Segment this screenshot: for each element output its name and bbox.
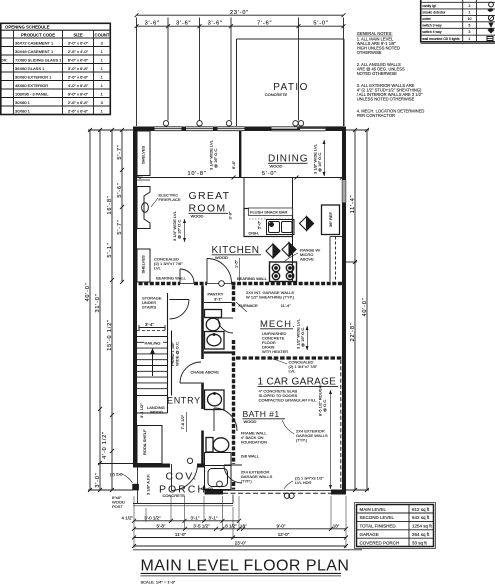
bottom dim row1 [132, 519, 241, 523]
2x4 exterior garage walls note lower [241, 470, 273, 484]
svg-text:4 1/2": 4 1/2" [122, 515, 134, 520]
svg-text:3'-1": 3'-1" [209, 515, 218, 520]
svg-text:2: 2 [469, 4, 471, 8]
svg-text:(TYP.): (TYP.) [296, 438, 308, 443]
svg-text:3'-0" x 6'-0": 3'-0" x 6'-0" [68, 41, 89, 46]
svg-text:1 CAR GARAGE: 1 CAR GARAGE [258, 377, 337, 388]
svg-text:COVERED PORCH: COVERED PORCH [360, 540, 400, 545]
svg-text:5'-0": 5'-0" [262, 171, 277, 177]
svg-text:3'-1 1/2": 3'-1 1/2" [139, 403, 144, 418]
svg-text:switch 3 way: switch 3 way [422, 24, 442, 28]
opening schedule text [1, 25, 110, 114]
svg-text:GARAGE: GARAGE [360, 532, 379, 537]
svg-text:GENERAL NOTES:: GENERAL NOTES: [357, 31, 393, 36]
svg-text:2'-6" x 6'-8": 2'-6" x 6'-8" [68, 75, 89, 80]
ceiling light diamond 1 [300, 217, 314, 231]
svg-text:5'-0": 5'-0" [313, 21, 328, 27]
svg-text:48X80 EXTERIOR: 48X80 EXTERIOR [15, 83, 48, 88]
svg-text:TOTAL FINISHED: TOTAL FINISHED [360, 524, 397, 529]
garage door opening dashed [223, 491, 331, 494]
left dim line 16'-8"/5'-1"/15'-0.5"/4'-0.5" [110, 128, 114, 492]
svg-text:LVL HDR: LVL HDR [295, 480, 312, 485]
svg-text:W 1/2" SHEATHING (TYP.): W 1/2" SHEATHING (TYP.) [246, 294, 295, 299]
svg-text:5: 5 [469, 24, 471, 28]
svg-text:wall mounted CB 5 lights: wall mounted CB 5 lights [422, 37, 460, 41]
svg-text:3'-4": 3'-4" [145, 322, 154, 327]
svg-text:3'-0": 3'-0" [95, 472, 101, 487]
bath1 tub [205, 453, 232, 490]
svg-text:COV.: COV. [166, 471, 199, 483]
svg-text:2'-6" x 6'-8": 2'-6" x 6'-8" [68, 100, 89, 105]
svg-text:CONCRETE: CONCRETE [163, 493, 186, 498]
svg-text:3'-6": 3'-6" [208, 21, 223, 27]
svg-text:3'-0" x 6'-8": 3'-0" x 6'-8" [68, 66, 89, 71]
svg-text:1254 sq ft: 1254 sq ft [412, 524, 433, 529]
svg-text:30X80 1: 30X80 1 [15, 100, 31, 105]
bath1 vanity sink [205, 390, 225, 410]
svg-text:3'-1": 3'-1" [214, 297, 223, 302]
landing [137, 396, 168, 414]
svg-text:WOOD: WOOD [150, 410, 163, 415]
svg-text:FLUSH SNACK BAR: FLUSH SNACK BAR [250, 210, 287, 215]
left dim line 5'-7"/5'-6"/5'-7" [120, 128, 124, 284]
svg-text:ABOVE: ABOVE [300, 257, 314, 262]
electrical legend table top right [421, 0, 495, 43]
svg-text:3: 3 [469, 30, 471, 34]
svg-text:3'-0": 3'-0" [227, 211, 232, 220]
bottom extension lines [134, 496, 346, 548]
svg-text:3'-5 1/2": 3'-5 1/2" [193, 523, 210, 528]
garage notes [259, 389, 317, 403]
top dimension line segments [135, 24, 346, 28]
right dim line 40'-0" [365, 128, 369, 492]
svg-text:11'-4": 11'-4" [281, 303, 291, 308]
general notes [357, 31, 425, 118]
exterior top wall segments [133, 127, 346, 132]
electrical legend text [422, 4, 471, 41]
svg-text:15'-0 1/2": 15'-0 1/2" [107, 319, 113, 351]
svg-text:1'-5": 1'-5" [234, 259, 239, 268]
double sink [267, 220, 295, 235]
garage wall B vertical [232, 286, 235, 490]
svg-text:WIDE @ O.C.: WIDE @ O.C. [175, 341, 180, 366]
svg-text:STAIRS: STAIRS [142, 305, 156, 310]
svg-text:outlet: outlet [422, 17, 430, 21]
shelves closet top left [137, 131, 150, 176]
svg-text:2x6 WALL: 2x6 WALL [241, 454, 260, 459]
great room label [189, 190, 231, 215]
top dimension line 23'-0" [135, 13, 346, 17]
svg-text:GREAT: GREAT [189, 190, 231, 202]
left dim line 40'-0" [88, 128, 92, 492]
frame wall note [241, 431, 268, 445]
svg-text:36" REF.: 36" REF. [328, 211, 333, 227]
svg-text:7'-6": 7'-6" [257, 21, 272, 27]
kitchen island [244, 209, 293, 237]
svg-text:1: 1 [469, 37, 471, 41]
svg-text:2'-6" x 6'-8": 2'-6" x 6'-8" [68, 109, 89, 114]
svg-text:6'-0" x 6'-8": 6'-0" x 6'-8" [68, 58, 89, 63]
svg-text:OTHERWISE: OTHERWISE [357, 50, 382, 55]
bath1 door arc [214, 408, 237, 431]
casement window W1 top wall [155, 127, 182, 131]
svg-text:SIZE: SIZE [73, 32, 83, 37]
left dimension caps [88, 130, 133, 490]
closet bottom line and 6" note [133, 179, 150, 181]
svg-text:5'-0": 5'-0" [257, 220, 262, 229]
svg-text:WOOD: WOOD [270, 164, 283, 169]
svg-text:612 sq ft: 612 sq ft [412, 507, 430, 512]
kitchen counter right wall [330, 237, 342, 282]
hall wall A vertical [201, 286, 204, 464]
entry door arc [180, 362, 201, 383]
svg-text:642 sq ft: 642 sq ft [412, 515, 430, 520]
right dimension caps [346, 130, 369, 490]
svg-text:12'-0": 12'-0" [278, 532, 290, 537]
svg-text:22'-8": 22'-8" [350, 322, 356, 341]
exterior right wall lower [342, 203, 346, 495]
svg-text:SECOND LEVEL: SECOND LEVEL [360, 515, 395, 520]
garage interior dim line [330, 390, 332, 489]
exterior right wall upper [342, 127, 346, 181]
svg-text:COMPACTED GRANULAR FILL: COMPACTED GRANULAR FILL [259, 398, 317, 403]
svg-text:MAIN LEVEL FLOOR PLAN: MAIN LEVEL FLOOR PLAN [141, 558, 350, 575]
kitchen partition line above island [243, 178, 245, 209]
svg-text:BEARING WALL: BEARING WALL [237, 276, 268, 281]
porch front wall of house [133, 464, 205, 468]
svg-text:72X80 SLIDING GLASS 1: 72X80 SLIDING GLASS 1 [15, 58, 62, 63]
svg-text:LVL: LVL [289, 369, 297, 374]
bearing wall across [133, 282, 346, 286]
separator line above title [133, 549, 362, 551]
entry door tag circle [187, 458, 192, 463]
stair side rails [168, 293, 172, 413]
concealed lvl note garage [289, 360, 318, 374]
svg-text:POST: POST [112, 504, 123, 509]
svg-text:WOOD: WOOD [191, 214, 204, 219]
svg-text:18": 18" [333, 523, 340, 528]
bath1 toilet [206, 438, 229, 453]
svg-text:@ O.C.: @ O.C. [322, 399, 327, 412]
svg-text:30X80 EXTERIOR 1: 30X80 EXTERIOR 1 [15, 75, 52, 80]
svg-text:5'-6": 5'-6" [117, 182, 123, 197]
svg-text:OR:: OR: [1, 58, 8, 63]
bottom dim row2 [132, 527, 348, 531]
lvl hdr note [295, 476, 324, 486]
great room door arc at bearing wall [180, 269, 194, 283]
svg-text:ROD& SHELF: ROD& SHELF [142, 429, 147, 455]
porch slab outline [133, 468, 233, 506]
svg-text:@ 16" O.C.: @ 16" O.C. [300, 327, 305, 347]
svg-text:WOOD: WOOD [244, 419, 257, 424]
electrical legend symbols [487, 2, 494, 40]
shelves closet mid left [137, 249, 150, 282]
svg-text:1: 1 [469, 11, 471, 15]
pantry closet [204, 302, 232, 304]
svg-text:smoke detector: smoke detector [422, 11, 446, 15]
svg-text:@ 16" O.C.: @ 16" O.C. [177, 219, 182, 239]
mech notes [262, 331, 288, 354]
svg-text:108X96 - 3 PANEL: 108X96 - 3 PANEL [15, 92, 49, 97]
svg-text:WTR HEATER: WTR HEATER [262, 349, 288, 354]
bottom dim row3 [132, 536, 348, 540]
svg-text:2'-6" x 4'-0": 2'-6" x 4'-0" [68, 49, 89, 54]
svg-text:(TYP.): (TYP.) [241, 479, 253, 484]
left dim line 31'-0"/3'-0" [98, 128, 102, 492]
svg-text:10: 10 [468, 17, 472, 21]
kitchen door arc at bearing wall [207, 259, 232, 284]
toilet room bottom wall [204, 351, 232, 353]
refrigerator [322, 205, 340, 235]
int garage wall note [246, 290, 295, 300]
svg-text:ENTRY: ENTRY [167, 396, 201, 406]
svg-text:switch 4 way: switch 4 way [422, 30, 442, 34]
area table [355, 503, 436, 549]
svg-text:36X72 CASEMENT 1: 36X72 CASEMENT 1 [15, 41, 54, 46]
svg-text:3 1/8" A.F.F.: 3 1/8" A.F.F. [146, 474, 151, 495]
garage entry door arc [224, 465, 242, 483]
svg-text:3'-0 1/2": 3'-0 1/2" [144, 515, 161, 520]
top extension lines [137, 18, 344, 127]
svg-text:CHASE ABOVE: CHASE ABOVE [191, 370, 220, 375]
stair up arrow [152, 352, 154, 376]
storage door arc [170, 300, 190, 320]
svg-text:OPENING SCHEDULE: OPENING SCHEDULE [5, 25, 50, 30]
electric fireplace [137, 187, 150, 229]
sliding glass door top wall [272, 127, 345, 131]
svg-text:3'-6": 3'-6" [176, 21, 191, 27]
range with burners [270, 262, 297, 282]
svg-text:PRODUCT CODE: PRODUCT CODE [21, 32, 55, 37]
patio outline [237, 39, 345, 126]
svg-text:C2x6B: C2x6B [201, 486, 213, 491]
svg-text:LVL: LVL [154, 266, 162, 271]
svg-text:FOUNDATION: FOUNDATION [241, 440, 267, 445]
storage under stairs [142, 296, 162, 310]
right dim line 11'-4"/22'-8" [353, 128, 357, 492]
window tag circles on top wall [163, 121, 303, 126]
svg-text:SHELVES: SHELVES [141, 255, 146, 273]
svg-text:PER CONTRACTOR: PER CONTRACTOR [357, 113, 395, 118]
svg-text:11'-0": 11'-0" [175, 532, 187, 537]
svg-text:BATH #1: BATH #1 [243, 409, 280, 419]
svg-text:40'-0": 40'-0" [362, 297, 368, 316]
stairs dashed break [137, 330, 168, 332]
range note [300, 248, 321, 262]
svg-text:9'-0" x 8'-0": 9'-0" x 8'-0" [68, 92, 89, 97]
dining partition wall [239, 131, 241, 178]
storage dim 3'-4" [139, 325, 165, 330]
electric fireplace label [159, 193, 182, 203]
garage door tag circles [284, 493, 294, 498]
svg-text:5'-8": 5'-8" [157, 523, 166, 528]
svg-text:RAILING: RAILING [145, 341, 161, 346]
svg-text:7'-8 1/2": 7'-8 1/2" [180, 414, 185, 429]
svg-text:16'-8": 16'-8" [107, 195, 113, 214]
toilet room upper: toilet [205, 310, 222, 331]
svg-text:23'-0": 23'-0" [235, 541, 247, 546]
svg-text:MAIN LEVEL: MAIN LEVEL [360, 507, 387, 512]
svg-text:@ 16" O.C.: @ 16" O.C. [213, 148, 218, 168]
bottom dim row4 [132, 544, 348, 548]
toilet room upper: sink vanity [205, 332, 225, 350]
mech garage divider wall [236, 356, 342, 359]
interior dim line across great room / dining [135, 176, 344, 180]
svg-text:11'-4": 11'-4" [350, 195, 356, 214]
svg-text:23'-0": 23'-0" [230, 10, 249, 16]
svg-text:4'-0 1/2": 4'-0 1/2" [102, 431, 108, 459]
kitchen partition line right of island [292, 178, 294, 209]
svg-text:8 1/2": 8 1/2" [225, 523, 237, 528]
svg-text:5'-7": 5'-7" [117, 219, 123, 234]
svg-text:5'-1": 5'-1" [107, 242, 113, 257]
garage right wall inner dashed sheathing [340, 360, 342, 490]
svg-text:3'-6": 3'-6" [145, 21, 160, 27]
svg-text:30X48 CASEMENT 1: 30X48 CASEMENT 1 [15, 49, 54, 54]
svg-text:264 sq ft: 264 sq ft [412, 532, 430, 537]
svg-text:30X80 1: 30X80 1 [15, 109, 31, 114]
casement window right wall dining [342, 180, 346, 203]
svg-text:33 sq ft: 33 sq ft [412, 540, 428, 545]
svg-text:31'-0": 31'-0" [95, 293, 101, 312]
bottom wall left of garage door [205, 490, 224, 495]
casement window W2 top wall [186, 127, 213, 131]
railing label [144, 340, 163, 346]
flush snack bar label [249, 208, 293, 216]
svg-text:DISH.: DISH. [249, 231, 260, 236]
svg-text:COUNT: COUNT [95, 32, 110, 37]
exterior left wall [133, 127, 137, 468]
svg-text:3'-1": 3'-1" [191, 515, 200, 520]
svg-text:SHELVES: SHELVES [141, 146, 146, 164]
bottom wall right of garage door [331, 490, 346, 495]
porch corner wood post [132, 484, 139, 491]
svg-text:6'-4": 6'-4" [231, 160, 236, 169]
svg-text:NOTED OTHERWISE: NOTED OTHERWISE [357, 71, 397, 76]
wall tag circle [219, 281, 225, 287]
casement window W3 top wall [218, 127, 245, 131]
svg-text:4'-0" x 6'-8": 4'-0" x 6'-8" [68, 83, 89, 88]
svg-text:5'-7": 5'-7" [117, 144, 123, 159]
svg-text:UNLESS NOTED OTHERWISE: UNLESS NOTED OTHERWISE [357, 97, 415, 102]
concealed lvl note left [154, 257, 187, 281]
ceiling light diamond 2 [266, 244, 280, 258]
svg-text:SCALE: 1/4" = 1'-0": SCALE: 1/4" = 1'-0" [141, 580, 176, 585]
svg-text:vanity lgt: vanity lgt [422, 4, 435, 8]
coat closet [137, 426, 162, 464]
svg-text:40'-0": 40'-0" [85, 282, 91, 301]
ceiling light diamond 3 [282, 243, 296, 257]
toilet room door arc [218, 318, 233, 333]
stair treads [137, 337, 168, 389]
svg-text:10'-8": 10'-8" [187, 171, 206, 177]
svg-text:FIREPLACE: FIREPLACE [159, 197, 182, 202]
svg-text:18": 18" [240, 523, 247, 528]
tub tag circle [217, 481, 223, 487]
svg-text:36X80 GLASS 1: 36X80 GLASS 1 [15, 66, 45, 71]
svg-text:9'-0": 9'-0" [277, 523, 286, 528]
svg-text:BEARING WALL: BEARING WALL [156, 276, 187, 281]
garage wall notes [296, 429, 328, 443]
svg-text:WOOD: WOOD [215, 255, 228, 260]
front door arc [172, 464, 198, 491]
opening schedule table [1, 23, 111, 114]
svg-text:CONCRETE: CONCRETE [265, 92, 288, 97]
svg-text:@ 16" O.C.: @ 16" O.C. [317, 152, 322, 172]
